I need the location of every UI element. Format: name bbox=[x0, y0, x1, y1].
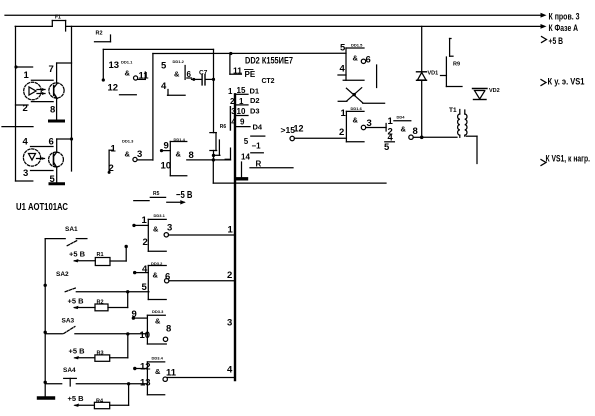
svg-text:DD1.1: DD1.1 bbox=[121, 60, 133, 65]
wire: flip-flop feedback top (y=49) bbox=[102, 49, 214, 81]
diode VD2 (symbol near T1) bbox=[473, 88, 500, 100]
svg-text:DD3.2: DD3.2 bbox=[151, 261, 163, 266]
resistor R1 bbox=[95, 252, 110, 266]
svg-text:&: & bbox=[174, 70, 180, 79]
svg-text:6: 6 bbox=[366, 55, 371, 66]
svg-text:DD1.3: DD1.3 bbox=[122, 138, 134, 143]
svg-text:D4: D4 bbox=[253, 123, 263, 132]
switch SA4 (button) bbox=[44, 367, 148, 386]
svg-text:R9: R9 bbox=[453, 62, 460, 68]
wire: vertical from line B down to thyristor drive node bbox=[420, 26, 424, 139]
svg-text:DD1.2: DD1.2 bbox=[173, 59, 185, 64]
logic gate DD3.4 (pins 12,13 -> 11) bbox=[133, 356, 234, 395]
wire: T1 left lead to drive node bbox=[422, 136, 457, 138]
resistor R6 (in series jog) bbox=[210, 124, 227, 157]
svg-text:DD3.1: DD3.1 bbox=[154, 213, 166, 218]
svg-text:U1 АОТ101АС: U1 АОТ101АС bbox=[16, 202, 68, 213]
logic gate DD3.3 (pins 9,10 -> 8) bbox=[132, 309, 172, 344]
svg-text:10: 10 bbox=[237, 107, 246, 116]
switch SA2 bbox=[44, 271, 149, 293]
svg-text:&: & bbox=[155, 367, 161, 376]
svg-text:9: 9 bbox=[240, 118, 245, 127]
svg-text:T1: T1 bbox=[449, 107, 457, 114]
svg-text:+5 В: +5 В bbox=[68, 394, 85, 403]
diode VD1 (zener on vertical) bbox=[417, 71, 439, 81]
svg-text:D3: D3 bbox=[250, 107, 260, 116]
svg-text:R4: R4 bbox=[96, 399, 104, 405]
svg-text:DD1.5: DD1.5 bbox=[351, 43, 363, 48]
svg-text:&: & bbox=[176, 150, 182, 159]
ground at switches bus bbox=[39, 396, 54, 399]
svg-text:F1: F1 bbox=[55, 15, 61, 21]
svg-text:DD3.4: DD3.4 bbox=[152, 356, 164, 361]
capacitor C7 bbox=[192, 70, 216, 85]
wire: crossing X symbol bbox=[338, 88, 384, 104]
node: -5 В supply label bbox=[134, 190, 193, 205]
optocoupler U1.2 (pins 3,4,5,6) bbox=[23, 137, 64, 186]
logic gate DD1.4 (pins 9,10 -> 8) bbox=[160, 137, 231, 176]
svg-text:+5 В: +5 В bbox=[68, 297, 85, 306]
logic gate DD1.1 (pins 13,12 -> 11) bbox=[108, 60, 150, 95]
svg-text:8: 8 bbox=[50, 105, 55, 116]
svg-text:1: 1 bbox=[24, 70, 30, 81]
svg-text:4: 4 bbox=[227, 365, 233, 376]
svg-text:1: 1 bbox=[111, 144, 117, 155]
svg-text:8: 8 bbox=[413, 126, 418, 137]
wire: pin 1 of U1.1 from bus bbox=[14, 65, 32, 68]
resistor R3 bbox=[95, 351, 110, 362]
svg-text:D2: D2 bbox=[250, 96, 260, 105]
svg-text:SA3: SA3 bbox=[62, 318, 75, 325]
wire: DD2 pin12 output to gate DD1.5 bbox=[294, 137, 346, 139]
svg-text:PE: PE bbox=[245, 70, 256, 79]
svg-text:DD2 К155ИЕ7: DD2 К155ИЕ7 bbox=[245, 56, 293, 66]
svg-text:−1: −1 bbox=[252, 142, 262, 151]
logic gate DD3.1 (pins 1,2 -> 3) bbox=[132, 213, 234, 251]
node: DD2 output >=15 (pin 12) bbox=[281, 124, 304, 141]
svg-text:&: & bbox=[125, 69, 131, 78]
resistor R9 (vertical jog) bbox=[441, 39, 461, 76]
wire: top line A (К пров. 3) bbox=[5, 13, 547, 18]
svg-text:SA2: SA2 bbox=[56, 271, 69, 278]
wire: vertical x213.5 (C7 node down through R6 to output line) bbox=[212, 79, 215, 161]
svg-text:5: 5 bbox=[161, 61, 167, 72]
wire: left bus from line B down bbox=[16, 26, 33, 181]
svg-text:&: & bbox=[125, 150, 131, 159]
svg-text:11: 11 bbox=[166, 368, 177, 379]
switch F1 in line B bbox=[52, 15, 65, 32]
node: DD2 input D3 (pin 10, net 3) bbox=[231, 107, 259, 117]
node: tied inputs 1/2 of DD4 bbox=[386, 116, 393, 138]
svg-text:DD3.3: DD3.3 bbox=[152, 309, 164, 314]
node: connector +5 В bbox=[542, 36, 564, 47]
ground under U1.2 pin 5 bbox=[50, 168, 64, 184]
svg-text:1: 1 bbox=[142, 215, 148, 226]
wire: preset data bus (thick) bbox=[234, 94, 236, 380]
wire: pin 7 of U1.1 up to collector rail bbox=[57, 63, 72, 83]
svg-text:1: 1 bbox=[228, 87, 233, 96]
svg-text:2: 2 bbox=[143, 237, 148, 248]
wire: PE input pin 11 of DD2 bbox=[230, 54, 242, 76]
svg-text:12: 12 bbox=[294, 124, 304, 134]
svg-text:4: 4 bbox=[142, 264, 148, 275]
svg-text:5: 5 bbox=[340, 43, 346, 54]
svg-text:SA1: SA1 bbox=[65, 226, 78, 233]
svg-text:+5 В: +5 В bbox=[69, 250, 86, 259]
svg-text:1: 1 bbox=[388, 116, 394, 127]
svg-text:10: 10 bbox=[161, 161, 172, 172]
node: DD2 input D1 (pin 15, net 1) bbox=[228, 86, 259, 96]
node: PE / CT2 labels of DD2 bbox=[245, 70, 275, 86]
svg-text:R6: R6 bbox=[220, 124, 227, 130]
svg-text:&: & bbox=[353, 54, 359, 63]
node: +5 В at R4 bbox=[68, 394, 95, 407]
svg-text:VD1: VD1 bbox=[428, 71, 439, 77]
svg-text:10: 10 bbox=[140, 330, 151, 341]
transformer T1 bbox=[449, 107, 467, 137]
wire: T1 right lead down to VS1 bbox=[467, 136, 478, 163]
svg-text:4: 4 bbox=[161, 81, 167, 92]
svg-text:11: 11 bbox=[233, 66, 242, 76]
ground at DD2 bbox=[236, 162, 247, 179]
node: DD2 input D2 (pin 1, net 2) bbox=[230, 96, 260, 106]
wire: R2' riser to pin5 wire bbox=[108, 307, 128, 309]
svg-text:3: 3 bbox=[23, 168, 28, 179]
svg-text:&: & bbox=[153, 271, 159, 280]
svg-text:&: & bbox=[155, 317, 161, 326]
ground under U1.1 pin 8 bbox=[50, 99, 64, 121]
svg-text:R5: R5 bbox=[153, 191, 160, 197]
svg-text:&: & bbox=[401, 125, 407, 134]
svg-text:R2: R2 bbox=[96, 31, 103, 37]
svg-text:14: 14 bbox=[241, 153, 250, 162]
svg-text:4: 4 bbox=[340, 64, 346, 75]
svg-text:7: 7 bbox=[49, 64, 54, 75]
svg-text:&: & bbox=[153, 225, 159, 234]
wire: R4 riser to pin13 wire bbox=[110, 404, 129, 406]
svg-text:5: 5 bbox=[384, 142, 390, 153]
svg-text:3: 3 bbox=[227, 318, 232, 329]
svg-text:К пров. 3: К пров. 3 bbox=[549, 12, 580, 23]
resistor R2 bbox=[95, 31, 111, 42]
svg-text:12: 12 bbox=[108, 83, 119, 94]
svg-text:15: 15 bbox=[237, 86, 246, 95]
svg-text:R: R bbox=[256, 160, 262, 169]
svg-text:DD1.4: DD1.4 bbox=[174, 137, 186, 142]
node: +5 В at R2' bbox=[68, 297, 96, 310]
wire: pin 4 of U1.2 from bus bbox=[2, 126, 33, 128]
node: DD2 input D4 (pin 9, net 4) bbox=[231, 118, 263, 132]
wire: switches common bus bbox=[44, 239, 46, 397]
svg-text:6: 6 bbox=[49, 137, 54, 148]
svg-text:SA4: SA4 bbox=[63, 367, 76, 374]
svg-text:СТ2: СТ2 bbox=[262, 78, 275, 85]
logic gate DD4.1 (pins 1,2,4,5 -> 8) bbox=[394, 115, 422, 140]
svg-text:1: 1 bbox=[341, 108, 347, 119]
wire: R9 to T1 primary bbox=[446, 76, 462, 87]
svg-text:DD1.6: DD1.6 bbox=[351, 106, 363, 111]
svg-text:13: 13 bbox=[140, 378, 151, 389]
node: connector К у. э. VS1 bbox=[541, 77, 585, 88]
svg-text:8: 8 bbox=[166, 324, 171, 335]
svg-text:2: 2 bbox=[227, 270, 232, 281]
wire: bracket left of D3/D4 rows bbox=[229, 107, 231, 130]
svg-text:5: 5 bbox=[142, 282, 148, 293]
wire: collector rail from line B down bbox=[70, 26, 73, 171]
svg-text:C7: C7 bbox=[199, 70, 208, 77]
svg-text:3: 3 bbox=[167, 223, 172, 234]
svg-text:4: 4 bbox=[23, 137, 29, 148]
switch SA1 bbox=[45, 226, 87, 246]
wire: from y53.5 corner down to DD1.3 output bbox=[153, 52, 346, 160]
node: connector К VS1, к нагр. bbox=[541, 154, 590, 166]
optocoupler U1.1 (pins 1,2,7,8) bbox=[16, 64, 65, 116]
wire: DD1.4 output to DD2 pin5 bracket bbox=[225, 148, 231, 160]
node: DD2 input -1 (pin 5) bbox=[244, 136, 265, 150]
svg-text:К Фазе А: К Фазе А bbox=[549, 23, 579, 34]
wire: pin 6 of U1.2 up to collector rail bbox=[57, 139, 72, 152]
svg-text:9: 9 bbox=[132, 309, 137, 320]
svg-text:−5 В: −5 В bbox=[176, 190, 193, 201]
wire: R1 to DD3.1 input node bbox=[110, 245, 128, 261]
node: +5 В at R3 bbox=[69, 347, 95, 360]
logic gate DD3.2 (pins 4,5 -> 6) bbox=[133, 261, 234, 300]
node: +5 В at R1 bbox=[69, 250, 95, 263]
node: DD2 input R (pin 14) bbox=[241, 153, 293, 169]
node: tied inputs 4/5 of DD4 bbox=[384, 133, 394, 154]
resistor R4 bbox=[94, 399, 109, 409]
svg-text:1: 1 bbox=[228, 225, 234, 236]
wire: stub below gate DD1.5 output bbox=[376, 65, 378, 88]
svg-text:R3: R3 bbox=[97, 351, 104, 357]
svg-text:+5 В: +5 В bbox=[549, 36, 564, 47]
svg-text:D1: D1 bbox=[250, 87, 260, 96]
svg-text:&: & bbox=[353, 116, 359, 125]
logic gate DD1.2 (pins 5,4 -> 6) bbox=[161, 59, 192, 95]
svg-text:9: 9 bbox=[164, 141, 169, 152]
wire: R3 riser to pin10 wire bbox=[110, 357, 128, 359]
resistor R2' bbox=[95, 300, 108, 311]
svg-text:2: 2 bbox=[339, 127, 344, 138]
switch SA3 bbox=[44, 318, 148, 336]
logic gate DD1.3 (pins 1,2 -> 3) bbox=[108, 138, 153, 174]
svg-text:+5 В: +5 В bbox=[69, 347, 86, 356]
svg-text:5: 5 bbox=[244, 137, 249, 146]
svg-text:12: 12 bbox=[140, 362, 151, 373]
logic gate DD1.6 (pins 1,2 -> 3) bbox=[339, 106, 386, 142]
logic gate DD1.5 (pins 5,4 -> 6), right cluster bbox=[338, 43, 371, 81]
svg-text:13: 13 bbox=[109, 60, 120, 71]
svg-text:DD4: DD4 bbox=[397, 115, 406, 120]
svg-text:К у. э. VS1: К у. э. VS1 bbox=[548, 77, 586, 88]
svg-text:VD2: VD2 bbox=[489, 88, 500, 94]
svg-text:К VS1, к нагр.: К VS1, к нагр. bbox=[546, 154, 591, 165]
svg-text:3: 3 bbox=[137, 149, 142, 160]
wire: from x213 down and right (y=183) bbox=[213, 160, 386, 183]
wire: line B (К Фазе А) bbox=[15, 24, 546, 29]
